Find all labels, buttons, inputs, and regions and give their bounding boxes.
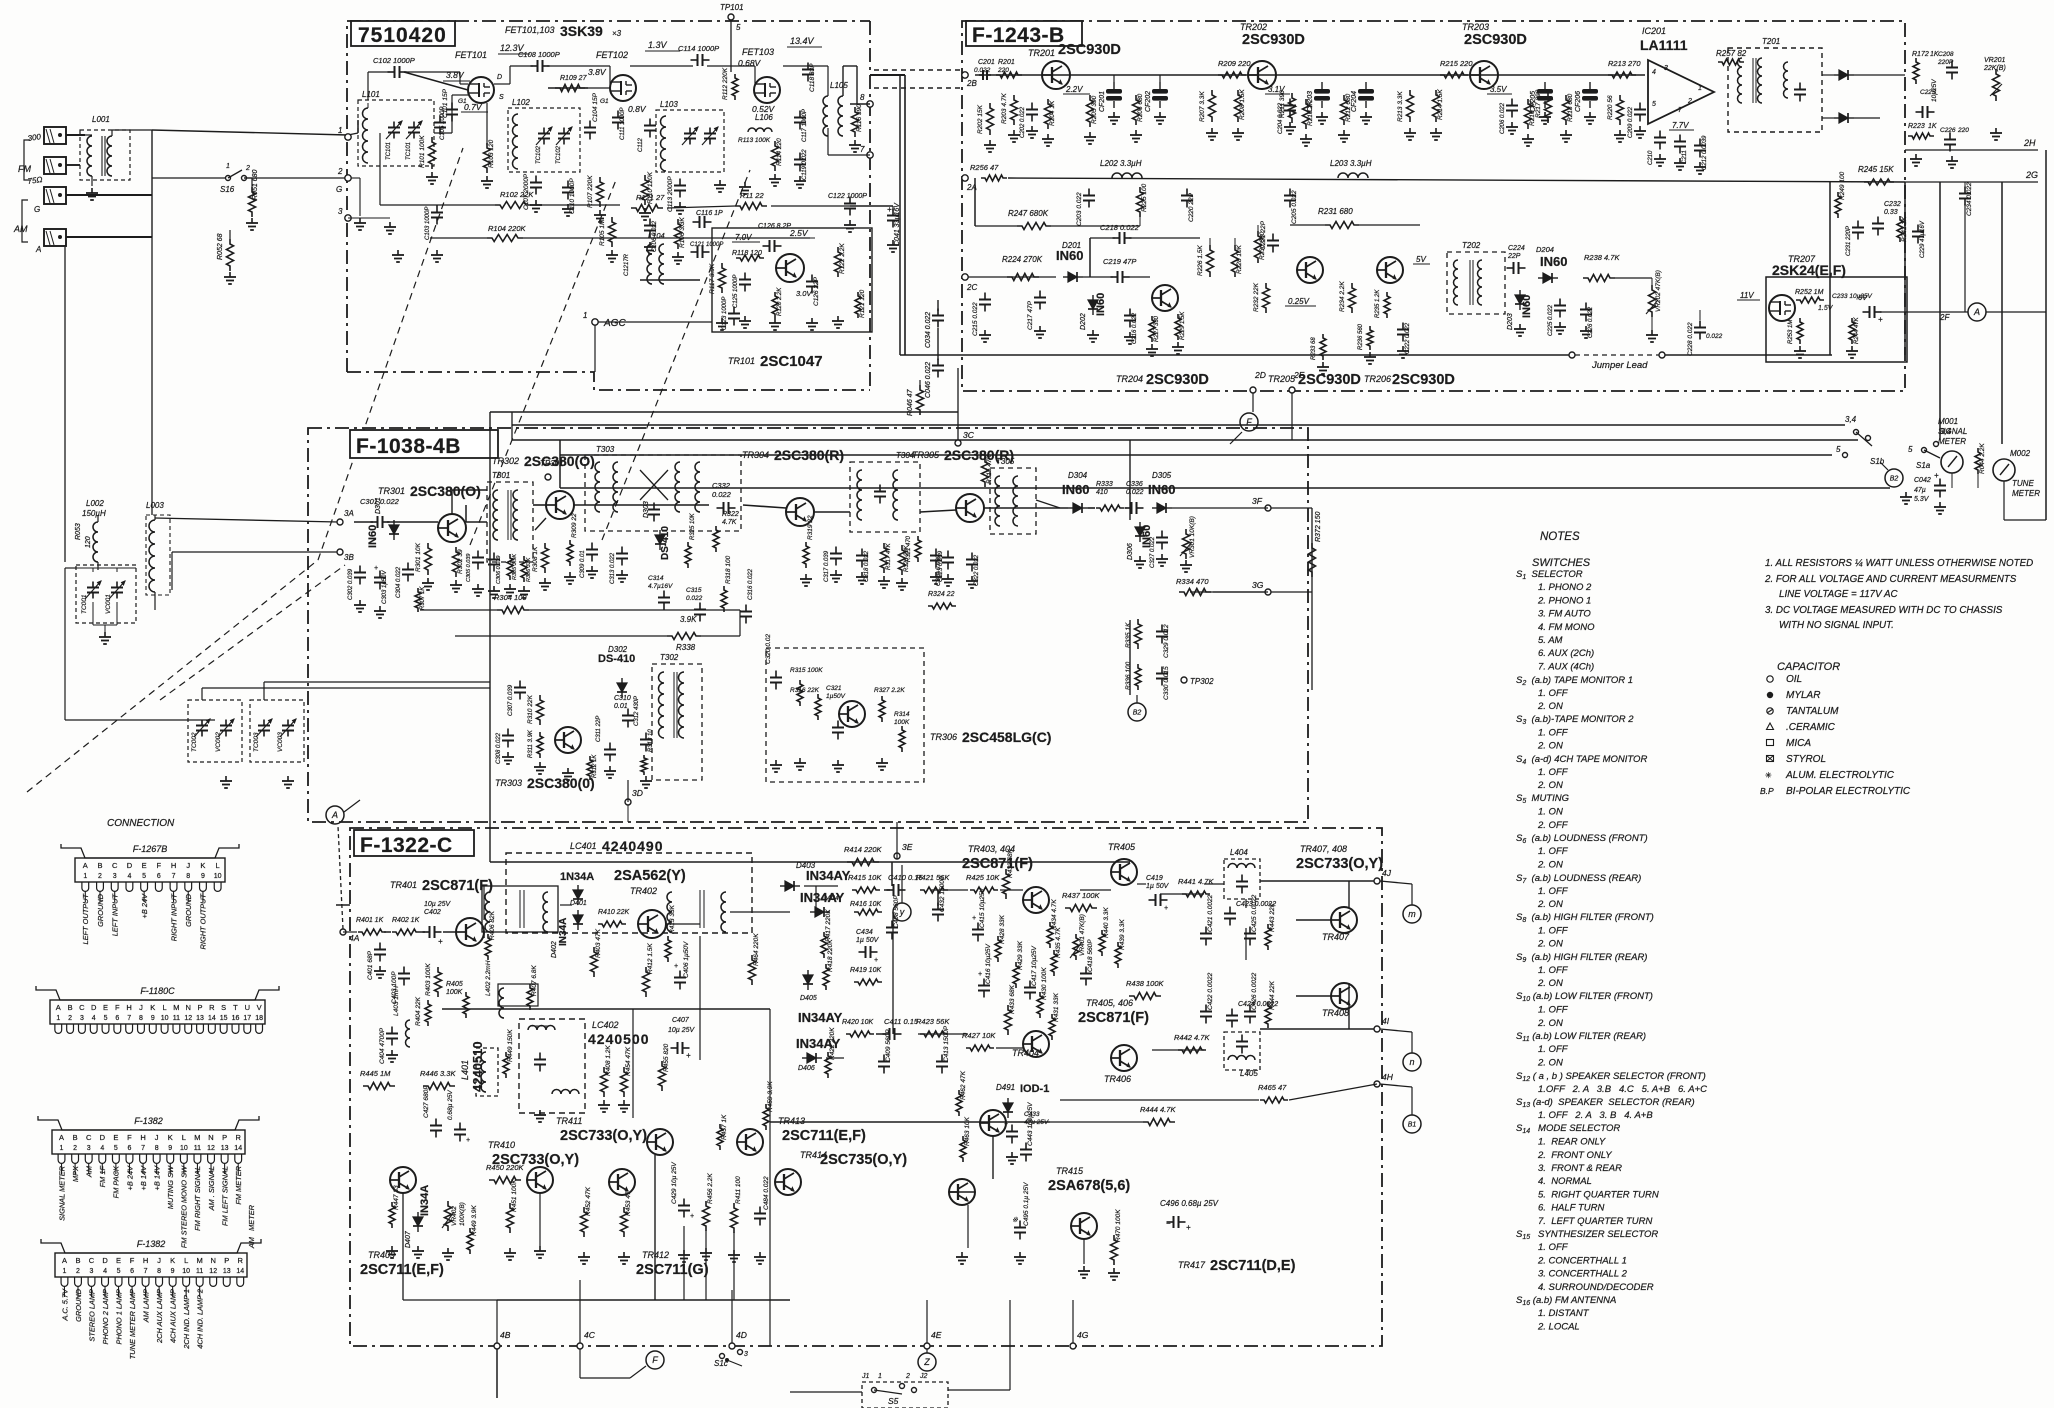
capacitor C104 15P [589, 121, 591, 128]
svg-text:TC003: TC003 [253, 732, 260, 752]
capacitor C323 0.039 [935, 549, 937, 556]
svg-text:C229 47µ16V: C229 47µ16V [1920, 220, 1926, 258]
ground [775, 760, 777, 765]
wire [343, 931, 357, 933]
resistor R203 4.7K [1011, 95, 1018, 125]
svg-text:R227 330: R227 330 [1154, 315, 1160, 342]
svg-text:R053: R053 [75, 523, 82, 540]
svg-text:IN60: IN60 [1056, 248, 1083, 263]
svg-text:0.022: 0.022 [1126, 489, 1144, 496]
svg-text:R214 1.5K: R214 1.5K [1437, 89, 1444, 120]
svg-text:AM: AM [84, 1165, 93, 1178]
svg-text:C108 1000P: C108 1000P [518, 50, 560, 59]
svg-text:9: 9 [171, 1268, 175, 1275]
svg-text:11: 11 [196, 1268, 203, 1275]
svg-text:C113 2000P: C113 2000P [667, 176, 674, 212]
capacitor C202 0.022 [1031, 103, 1033, 110]
svg-text:AM LAMP: AM LAMP [141, 1289, 150, 1323]
svg-text:D: D [102, 1256, 108, 1265]
svg-text:S4 (a-d) 4CH TAPE MONITOR: S4 (a-d) 4CH TAPE MONITOR [1516, 754, 1647, 766]
capacitor C101 15P [439, 116, 441, 123]
transistor TR416 [1071, 1213, 1097, 1239]
svg-text:2SC871(F): 2SC871(F) [1078, 1010, 1149, 1026]
svg-text:R427 10K: R427 10K [962, 1031, 996, 1040]
svg-text:7: 7 [172, 873, 176, 880]
resistor R121 27 [631, 205, 663, 212]
svg-text:R257 82: R257 82 [1716, 49, 1747, 58]
wire [975, 225, 1017, 227]
svg-text:R109 27: R109 27 [560, 75, 588, 82]
resistor R105 1M [609, 217, 616, 247]
svg-text:R211 390: R211 390 [1279, 90, 1286, 118]
capacitor C308 0.022 [507, 729, 509, 736]
svg-text:R325 10K: R325 10K [690, 512, 696, 540]
svg-text:C409 560P: C409 560P [885, 1029, 892, 1062]
svg-text:7.0V: 7.0V [735, 233, 752, 242]
svg-text:F-1038-4B: F-1038-4B [356, 435, 461, 458]
svg-text:C112: C112 [638, 137, 644, 152]
node 3G [1265, 589, 1271, 595]
svg-text:E: E [113, 1133, 118, 1142]
svg-text:D: D [127, 861, 133, 870]
svg-text:TR402: TR402 [630, 886, 657, 896]
svg-text:R423 56K: R423 56K [916, 1017, 950, 1026]
svg-text:9: 9 [151, 1015, 155, 1022]
svg-text:TR404: TR404 [1012, 1048, 1039, 1058]
svg-text:13: 13 [221, 1145, 229, 1152]
svg-text:C114 1000P: C114 1000P [678, 44, 719, 53]
svg-text:4G: 4G [1077, 1330, 1089, 1340]
svg-text:7: 7 [860, 145, 865, 154]
wire [494, 83, 510, 85]
switch S5 box [862, 1382, 948, 1408]
module LC402 4240500 box [519, 1019, 585, 1113]
svg-text:G: G [336, 185, 342, 194]
wire [630, 65, 693, 67]
capacitor C403 100P [403, 967, 405, 974]
wire [155, 518, 338, 522]
svg-text:TR201: TR201 [1028, 48, 1055, 58]
svg-text:1.3V: 1.3V [648, 40, 668, 50]
svg-text:2: 2 [98, 873, 102, 880]
capacitor C111 1000P [617, 111, 619, 118]
svg-text:R317 47K: R317 47K [886, 542, 892, 570]
node 3F wire right [1270, 507, 1312, 509]
transistor TR101 [776, 254, 804, 282]
svg-text:R444 4.7K: R444 4.7K [1140, 1105, 1176, 1114]
svg-text:F-1180C: F-1180C [140, 986, 175, 996]
svg-text:2SC733(O,Y): 2SC733(O,Y) [1296, 856, 1383, 872]
wire top [490, 411, 958, 413]
svg-text:R321 470: R321 470 [906, 535, 912, 562]
tuning cap TC002 VC002 [188, 700, 242, 762]
svg-text:C228 0.022: C228 0.022 [1687, 322, 1694, 356]
svg-text:IN34A: IN34A [419, 1185, 431, 1216]
svg-text:R121 120: R121 120 [859, 289, 866, 318]
svg-text:+B 14V: +B 14V [139, 1165, 148, 1191]
svg-text:R412 1.5K: R412 1.5K [647, 943, 654, 974]
svg-text:C221 22P: C221 22P [1260, 220, 1267, 250]
svg-text:TR306: TR306 [930, 732, 957, 742]
svg-text:F-1243-B: F-1243-B [972, 24, 1065, 47]
capacitor C303 1u50V [379, 571, 381, 578]
svg-text:7. AUX (4Ch): 7. AUX (4Ch) [1538, 661, 1594, 672]
svg-text:M: M [197, 1256, 203, 1265]
resistor R320 22K [899, 545, 906, 575]
svg-text:5: 5 [142, 873, 146, 880]
svg-text:C443 100µ25V: C443 100µ25V [1027, 1102, 1034, 1146]
transistor TR412 [609, 1169, 635, 1195]
svg-text:4C: 4C [584, 1330, 596, 1340]
svg-text:METER: METER [2012, 489, 2040, 498]
svg-text:TUNE METER LAMP: TUNE METER LAMP [128, 1289, 137, 1359]
svg-text:R442 4.7K: R442 4.7K [1174, 1033, 1210, 1042]
svg-text:2SC711(D,E): 2SC711(D,E) [1210, 1258, 1296, 1274]
svg-text:3E: 3E [902, 842, 913, 852]
svg-text:IN60: IN60 [1521, 295, 1533, 318]
svg-text:R316 22K: R316 22K [790, 687, 820, 694]
svg-text:+: + [1934, 471, 1939, 480]
svg-text:L102: L102 [512, 98, 530, 107]
svg-text:10: 10 [161, 1015, 169, 1022]
svg-text:0.33: 0.33 [1884, 209, 1898, 216]
capacitor C401 68P [379, 943, 381, 950]
svg-text:C321: C321 [826, 685, 842, 692]
svg-text:R334 470: R334 470 [1176, 577, 1209, 586]
resistor R244 47K [1849, 318, 1855, 344]
svg-text:4240510: 4240510 [470, 1041, 485, 1092]
transistor TR411 [647, 1129, 673, 1155]
wire [1986, 311, 2046, 313]
connector F-1267B signal labels [84, 891, 86, 902]
svg-text:T302: T302 [660, 653, 679, 662]
svg-text:C313 0.022: C313 0.022 [610, 552, 616, 584]
resistor R114 220 [772, 141, 779, 171]
svg-text:B2: B2 [1133, 710, 1142, 717]
svg-text:C402: C402 [424, 909, 441, 916]
svg-text:T301: T301 [492, 471, 510, 480]
capacitor C206 0.022 [1511, 99, 1513, 106]
svg-text:6: 6 [157, 873, 161, 880]
svg-text:AGC: AGC [603, 318, 626, 329]
capacitor C304 0.022 [407, 563, 409, 570]
svg-text:J: J [186, 861, 190, 870]
svg-text:TC001: TC001 [81, 594, 88, 614]
svg-text:※: ※ [1012, 1216, 1018, 1224]
svg-text:R114 220: R114 220 [776, 138, 783, 166]
node 2C [962, 274, 968, 280]
transformer T304 [850, 462, 920, 532]
svg-text:C495 0.1µ 25V: C495 0.1µ 25V [1023, 1182, 1030, 1226]
svg-text:TANTALUM: TANTALUM [1786, 706, 1839, 717]
svg-text:10µ 25V: 10µ 25V [424, 901, 452, 908]
svg-text:NOTES: NOTES [1540, 531, 1580, 543]
svg-text:2SC711(G): 2SC711(G) [636, 1262, 709, 1278]
svg-text:3G: 3G [1252, 580, 1264, 590]
svg-text:4A: 4A [349, 933, 360, 943]
svg-text:R302 39: R302 39 [457, 549, 464, 574]
resistor R046 47 [917, 385, 924, 415]
svg-text:L: L [184, 1256, 188, 1265]
svg-text:CF201: CF201 [1099, 91, 1106, 112]
svg-text:L404: L404 [1230, 848, 1248, 857]
wire [1083, 276, 1113, 278]
capacitor C034 0.022 [937, 309, 939, 316]
svg-text:✳: ✳ [1765, 771, 1772, 780]
resistor R207 3.3K [1209, 90, 1216, 122]
svg-text:R116 390: R116 390 [856, 104, 863, 132]
wire [486, 103, 488, 145]
svg-text:+B 14V: +B 14V [152, 1165, 161, 1191]
svg-text:5: 5 [1836, 445, 1841, 454]
svg-text:1. OFF: 1. OFF [1538, 767, 1569, 778]
transistor TR203 2SC930D [1470, 61, 1498, 89]
title 7510420 [351, 21, 455, 46]
svg-text:T202: T202 [1462, 241, 1481, 250]
wire [151, 237, 153, 515]
filter T305 [990, 468, 1036, 534]
svg-text:TR411: TR411 [556, 1116, 582, 1126]
transistor TR414 [775, 1169, 801, 1195]
svg-text:3: 3 [90, 1268, 94, 1275]
svg-text:TR305: TR305 [912, 450, 940, 460]
svg-text:D405: D405 [800, 995, 817, 1002]
svg-text:C484 0.022: C484 0.022 [763, 1176, 770, 1210]
ceramic filter CF202 [1152, 89, 1168, 94]
legend .CERAMIC [1767, 723, 1774, 730]
svg-text:S9 (a.b) HIGH FILTER (REAR): S9 (a.b) HIGH FILTER (REAR) [1516, 952, 1647, 964]
svg-text:1K: 1K [1928, 123, 1937, 130]
svg-text:5: 5 [736, 23, 741, 32]
node B2 mid [1128, 703, 1146, 721]
svg-text:2SC380(R): 2SC380(R) [774, 447, 844, 463]
node 4E [924, 1343, 930, 1349]
svg-text:TR101: TR101 [728, 356, 755, 366]
legend STYROL [1767, 756, 1774, 762]
svg-text:R117 3.9K: R117 3.9K [709, 263, 716, 294]
wire [937, 300, 939, 311]
svg-text:C208: C208 [1938, 51, 1954, 58]
resistor R211 390 [1289, 93, 1296, 123]
transistor TR205 [1297, 257, 1323, 283]
svg-text:4: 4 [1652, 69, 1656, 76]
svg-text:R304 100: R304 100 [494, 593, 527, 602]
svg-text:S14 MODE SELECTOR: S14 MODE SELECTOR [1516, 1123, 1620, 1135]
svg-text:BI-POLAR ELECTROLYTIC: BI-POLAR ELECTROLYTIC [1786, 786, 1911, 797]
legend TANTALUM [1767, 708, 1773, 714]
capacitor C112 1000P [649, 119, 651, 126]
svg-text:R338: R338 [676, 643, 696, 652]
svg-text:0.8V: 0.8V [628, 104, 647, 114]
svg-text:C496 0.68µ 25V: C496 0.68µ 25V [1160, 1199, 1219, 1208]
svg-text:3. CONCERTHALL 2: 3. CONCERTHALL 2 [1538, 1269, 1628, 1280]
svg-text:J1: J1 [861, 1373, 870, 1380]
svg-text:D401: D401 [570, 900, 587, 907]
svg-text:TR405, 406: TR405, 406 [1086, 998, 1133, 1008]
capacitor C205 0.022 [1289, 189, 1291, 196]
svg-text:C217 47P: C217 47P [1027, 300, 1034, 330]
svg-text:VR401 47K(B): VR401 47K(B) [1079, 914, 1086, 956]
module LC401 4240490 box [506, 853, 752, 933]
svg-text:J2: J2 [919, 1373, 928, 1380]
svg-text:L103: L103 [660, 100, 678, 109]
svg-text:D: D [497, 74, 502, 81]
meter M002 tune [1993, 459, 2015, 481]
connector F-1382 pins [58, 1154, 241, 1163]
svg-text:2. ON: 2. ON [1537, 899, 1563, 910]
svg-text:H: H [126, 1003, 131, 1012]
svg-text:2: 2 [337, 167, 343, 176]
svg-text:S5 MUTING: S5 MUTING [1516, 793, 1569, 805]
resistor R228 10K [1232, 245, 1239, 277]
svg-text:R121 27: R121 27 [636, 193, 665, 202]
svg-text:PHONO 1 LAMP: PHONO 1 LAMP [114, 1289, 123, 1345]
transistor TR403 [1023, 887, 1049, 913]
svg-text:SIGNAL METER: SIGNAL METER [57, 1165, 66, 1221]
svg-text:N: N [186, 1003, 191, 1012]
module F-1243-B border [962, 21, 1905, 391]
svg-text:R220 56: R220 56 [1607, 95, 1614, 120]
svg-text:VR201: VR201 [1984, 57, 2006, 64]
resistor R225 100 [1137, 187, 1144, 217]
connector F-1382 signal labels [61, 1163, 63, 1174]
transistor TR202 2SC930D [1248, 61, 1276, 89]
svg-text:R252 1M: R252 1M [1795, 289, 1824, 296]
svg-text:H: H [140, 1133, 145, 1142]
diode D405 IN34AY [803, 975, 813, 984]
svg-text:R314: R314 [894, 711, 910, 718]
svg-text:0.25V: 0.25V [1288, 297, 1310, 306]
svg-text:R203 4.7K: R203 4.7K [1001, 93, 1008, 124]
svg-text:R307 1K: R307 1K [420, 586, 426, 610]
svg-text:3B: 3B [344, 553, 354, 562]
wire mpx bottom [627, 805, 629, 822]
resistor R236 560 [1367, 326, 1373, 350]
svg-text:C202 0.022: C202 0.022 [1020, 106, 1026, 138]
svg-text:R310 22K: R310 22K [527, 694, 534, 724]
resistor R220 56 [1617, 95, 1624, 125]
svg-text:C307 0.039: C307 0.039 [508, 684, 514, 716]
svg-text:D404: D404 [822, 895, 839, 902]
transistor extra right [980, 1110, 1006, 1136]
svg-text:C427 680P: C427 680P [423, 1085, 430, 1118]
svg-text:+B 24V: +B 24V [125, 1165, 134, 1191]
svg-text:4.7K: 4.7K [722, 519, 737, 526]
svg-text:R419 10K: R419 10K [850, 967, 881, 974]
svg-text:D406: D406 [798, 1065, 815, 1072]
resistor R212 680 [1341, 95, 1348, 125]
svg-text:C226 0.022: C226 0.022 [1588, 306, 1594, 338]
transistor TR306 [839, 701, 865, 727]
svg-text:F: F [157, 861, 162, 870]
svg-text:C425 0.0022: C425 0.0022 [1251, 894, 1258, 932]
wire to 4J [1260, 880, 1374, 882]
svg-text:IC201: IC201 [1642, 26, 1666, 36]
svg-text:2SC733(O,Y): 2SC733(O,Y) [560, 1128, 647, 1144]
wire bus mid [442, 1008, 770, 1010]
svg-text:R402 1K: R402 1K [392, 917, 420, 924]
wire vertical feed [1129, 620, 1131, 695]
svg-text:R413 33K: R413 33K [669, 904, 676, 934]
svg-text:2. ON: 2. ON [1537, 780, 1563, 791]
svg-text:T: T [233, 1003, 238, 1012]
resistor R206 680 [1133, 95, 1140, 125]
svg-text:G: G [34, 205, 40, 214]
svg-text:LC401: LC401 [570, 841, 597, 851]
resistor R227 330 [1149, 316, 1155, 342]
capacitor C215 0.022 [984, 293, 986, 300]
svg-text:1. OFF: 1. OFF [1538, 688, 1569, 699]
svg-text:1. DISTANT: 1. DISTANT [1538, 1308, 1590, 1319]
wire [783, 65, 828, 67]
antenna terminal AM G [44, 187, 66, 204]
svg-text:R228 10K: R228 10K [1236, 244, 1243, 274]
svg-text:E: E [142, 861, 147, 870]
svg-text:2SC380(O): 2SC380(O) [524, 453, 595, 469]
svg-text:C125 1000P: C125 1000P [733, 275, 739, 308]
svg-text:3A: 3A [344, 509, 354, 518]
ground [1939, 502, 1941, 507]
svg-text:C426 0.0022: C426 0.0022 [1251, 972, 1258, 1010]
svg-text:2SC735(O,Y): 2SC735(O,Y) [820, 1152, 907, 1168]
tuned circuit L102 TC102 [508, 108, 580, 172]
resistor R335 1K [1135, 619, 1142, 649]
wire long bus [512, 439, 1858, 441]
wire [511, 412, 513, 440]
svg-text:TR204: TR204 [1116, 374, 1143, 384]
capacitor C117 1000P [799, 111, 801, 118]
wire TR302 in [535, 518, 546, 530]
resistor R233 68 [1320, 334, 1326, 360]
wire to box node2 [244, 177, 348, 179]
svg-text:C231 220P: C231 220P [1846, 226, 1852, 256]
svg-text:2: 2 [73, 1145, 77, 1152]
svg-text:5.3V: 5.3V [1914, 496, 1930, 503]
svg-text:2. FOR ALL VOLTAGE AND CURRENT: 2. FOR ALL VOLTAGE AND CURRENT MEASURMEN… [1764, 574, 2017, 585]
svg-text:M: M [173, 1003, 179, 1012]
svg-text:LA1111: LA1111 [1640, 37, 1688, 53]
resistor R235 1.2K [1384, 292, 1390, 318]
svg-text:C234 0.022: C234 0.022 [1966, 182, 1973, 216]
svg-text:S16 (a.b) FM ANTENNA: S16 (a.b) FM ANTENNA [1516, 1295, 1616, 1307]
svg-text:R: R [209, 1003, 215, 1012]
node 4J [1374, 878, 1380, 884]
svg-text:D306: D306 [1127, 543, 1134, 560]
resistor R214 1.5K [1433, 90, 1440, 122]
wire vertical 3F [1311, 508, 1313, 690]
legend MICA [1767, 740, 1774, 746]
svg-text:S1 SELECTOR: S1 SELECTOR [1516, 569, 1583, 581]
diode D206 [1839, 113, 1848, 123]
svg-text:C117 1000P: C117 1000P [802, 109, 808, 142]
svg-text:R335 1K: R335 1K [1125, 622, 1132, 648]
svg-text:R372 150: R372 150 [1315, 512, 1322, 542]
svg-text:R309 22: R309 22 [571, 513, 578, 538]
FET102 [610, 75, 636, 101]
svg-text:R236 560: R236 560 [1358, 323, 1364, 350]
svg-text:TR205: TR205 [1268, 374, 1296, 384]
svg-text:C406 1µ50V: C406 1µ50V [683, 941, 690, 978]
svg-text:R238 4.7K: R238 4.7K [1584, 253, 1620, 262]
svg-text:TP302: TP302 [1190, 677, 1214, 686]
svg-text:1. OFF 2. A 3. B 4. A+B: 1. OFF 2. A 3. B 4. A+B [1538, 1110, 1653, 1121]
connector F-1180C pins [55, 1024, 263, 1033]
transistor TR201 2SC930D [1042, 61, 1070, 89]
svg-text:VR202 47K(B): VR202 47K(B) [1655, 270, 1662, 312]
svg-text:FM LEFT SIGNAL: FM LEFT SIGNAL [220, 1166, 229, 1226]
svg-text:A: A [35, 245, 41, 254]
svg-text:L002: L002 [86, 499, 104, 508]
